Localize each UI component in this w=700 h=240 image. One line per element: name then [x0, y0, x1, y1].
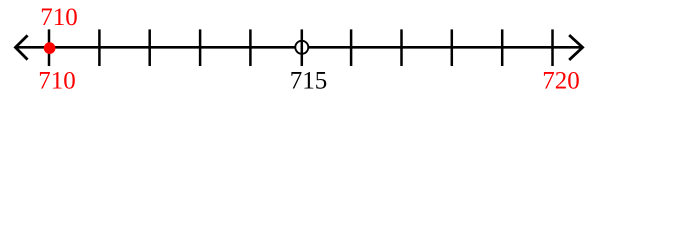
tick 719 [501, 29, 504, 66]
number line axis [16, 46, 583, 49]
tick 712 [148, 29, 151, 66]
left arrowhead [15, 36, 26, 58]
tick 715 [301, 29, 304, 66]
tick 717 [400, 29, 403, 66]
tick 710 [48, 29, 51, 66]
open circle at 715 (white fill hides axis) [295, 41, 308, 54]
tick 720 [551, 29, 554, 66]
right arrowhead [570, 36, 582, 59]
svg-text:710: 710 [40, 4, 78, 31]
tick 713 [199, 29, 202, 66]
svg-text:710: 710 [38, 68, 76, 95]
svg-text:720: 720 [542, 68, 580, 95]
tick 714 [249, 29, 252, 66]
tick 718 [451, 29, 454, 66]
red point marker at 710 [44, 42, 56, 54]
tick 711 [98, 29, 101, 66]
svg-text:715: 715 [290, 68, 328, 95]
tick 716 [350, 29, 353, 66]
